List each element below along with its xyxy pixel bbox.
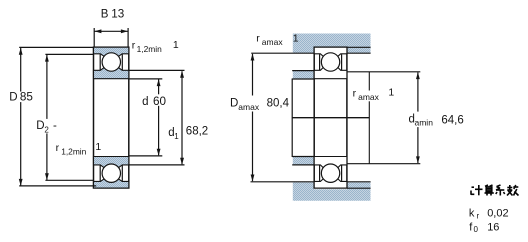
cage lines bottom bbox=[99, 165, 101, 181]
housing bottom (blue) bbox=[293, 183, 371, 201]
d extension top bbox=[129, 78, 162, 80]
svg-text:B: B bbox=[101, 9, 109, 21]
char xi bbox=[496, 185, 505, 196]
svg-text:2: 2 bbox=[44, 126, 49, 135]
damin arrows bbox=[416, 72, 420, 79]
Damax dimension line bbox=[252, 54, 254, 181]
svg-text:amax: amax bbox=[238, 102, 260, 112]
cage lines top bbox=[99, 54, 101, 70]
D2 extension bottom bbox=[45, 179, 94, 181]
d1 extension top bbox=[129, 69, 184, 71]
ball bottom bbox=[102, 164, 120, 182]
label r amax middle bbox=[357, 91, 382, 102]
svg-text:1: 1 bbox=[173, 39, 179, 51]
d1 arrows bbox=[180, 71, 184, 78]
inner ring top (blue) bbox=[94, 68, 129, 79]
cage lines top right view bbox=[319, 54, 321, 70]
bearing outline box right view bbox=[314, 47, 347, 188]
cage lines bottom right view bbox=[319, 165, 321, 181]
Damax arrows bbox=[251, 54, 255, 61]
svg-text:D: D bbox=[9, 92, 17, 104]
label Damax 80,4 bbox=[229, 96, 290, 112]
label D 85 bbox=[9, 92, 36, 103]
svg-text:1,2min: 1,2min bbox=[137, 44, 162, 54]
housing shoulder line bottom-right bbox=[347, 181, 370, 183]
d1 extension bottom bbox=[129, 164, 184, 166]
sleeve right edge bbox=[368, 72, 370, 164]
svg-text:1: 1 bbox=[95, 141, 101, 153]
d extension bottom bbox=[129, 155, 162, 157]
housing bore line bottom-right bbox=[347, 187, 371, 189]
D arrows bbox=[19, 48, 23, 55]
shaft surface bottom line left bbox=[292, 156, 314, 158]
svg-text:1: 1 bbox=[293, 33, 299, 45]
label damin 64,6 bbox=[407, 112, 464, 128]
housing shoulder line top-left (Da ext) bbox=[251, 52, 314, 54]
inner ring top right view bbox=[314, 68, 347, 79]
outer ring bottom (blue) bbox=[94, 179, 129, 188]
housing shoulder line bottom-left (Da ext) bbox=[251, 181, 315, 183]
ball top bbox=[102, 53, 120, 71]
svg-text:D: D bbox=[36, 120, 44, 132]
shaft centerline bbox=[292, 117, 369, 119]
svg-text:80,4: 80,4 bbox=[267, 97, 290, 109]
char ji bbox=[471, 185, 483, 195]
svg-text:d: d bbox=[142, 96, 148, 108]
housing bore line top-right bbox=[347, 46, 371, 48]
D dimension line bbox=[20, 48, 22, 186]
outer ring bottom right view bbox=[314, 179, 347, 188]
svg-text:64,6: 64,6 bbox=[441, 114, 463, 126]
svg-text:-: - bbox=[53, 120, 57, 132]
svg-text:13: 13 bbox=[111, 8, 124, 21]
B dimension line bbox=[94, 30, 128, 32]
char shu bbox=[507, 185, 519, 196]
svg-text:r: r bbox=[56, 142, 60, 154]
shaft left end face bbox=[291, 79, 293, 158]
D2 extension top bbox=[45, 53, 94, 55]
ball bottom right view bbox=[321, 164, 339, 182]
label D2 - bbox=[35, 119, 59, 133]
svg-text:k: k bbox=[469, 207, 475, 219]
svg-text:68,2: 68,2 bbox=[186, 126, 208, 138]
svg-text:0,02: 0,02 bbox=[487, 207, 508, 219]
D extension top bbox=[19, 46, 94, 48]
bearing outline box left view bbox=[94, 47, 129, 188]
inner ring bottom (blue) bbox=[94, 157, 129, 168]
svg-text:1,2min: 1,2min bbox=[61, 147, 86, 157]
svg-text:r: r bbox=[477, 211, 480, 220]
damin dimension line bbox=[417, 72, 419, 163]
svg-text:amin: amin bbox=[415, 118, 434, 128]
D2 dimension line bbox=[46, 55, 48, 180]
d dimension line bbox=[158, 80, 160, 156]
svg-text:amax: amax bbox=[358, 92, 380, 102]
outer ring top right view bbox=[314, 47, 347, 56]
outer ring top (blue) bbox=[94, 47, 129, 56]
shaft shoulder block top-left (blue) bbox=[293, 71, 314, 79]
svg-text:r: r bbox=[256, 33, 260, 45]
B arrows bbox=[94, 29, 101, 33]
shaft shoulder bottom edge left bbox=[292, 164, 314, 166]
svg-text:1: 1 bbox=[174, 132, 179, 141]
svg-text:60: 60 bbox=[153, 95, 167, 108]
d arrows bbox=[157, 79, 161, 86]
svg-text:amax: amax bbox=[262, 37, 284, 47]
D2 arrows bbox=[45, 55, 49, 62]
D extension bottom bbox=[19, 185, 96, 187]
svg-text:r: r bbox=[132, 39, 136, 51]
sleeve bottom line right (da ext) bbox=[347, 163, 420, 165]
svg-text:16: 16 bbox=[487, 221, 499, 233]
shaft shoulder block bottom-left (blue) bbox=[293, 157, 314, 165]
label d 60 bbox=[141, 94, 165, 106]
char suan bbox=[485, 185, 494, 196]
label jisuanxishu (Chinese: calculation factors) bbox=[471, 185, 519, 196]
ball top right view bbox=[321, 53, 339, 71]
svg-text:0: 0 bbox=[474, 225, 479, 234]
shaft surface top line left bbox=[292, 78, 314, 80]
svg-text:85: 85 bbox=[20, 91, 34, 104]
shaft shoulder top edge left bbox=[292, 70, 314, 72]
svg-text:D: D bbox=[230, 97, 238, 109]
sleeve top line right (da ext) bbox=[347, 71, 420, 73]
svg-text:1: 1 bbox=[388, 86, 394, 98]
d1 dimension line bbox=[181, 71, 183, 164]
B extension lines bbox=[93, 28, 95, 47]
svg-text:r: r bbox=[353, 88, 357, 100]
inner ring bottom right view bbox=[314, 157, 347, 168]
housing shoulder line top-right bbox=[347, 52, 370, 54]
housing top (blue) bbox=[293, 34, 371, 54]
